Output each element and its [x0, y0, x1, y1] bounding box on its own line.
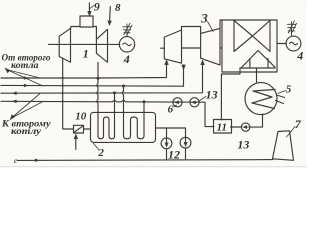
condenser throat house [241, 51, 275, 69]
arrow 9 steam inlet [88, 3, 90, 12]
svg-text:11: 11 [217, 122, 227, 134]
wire reheat line 2 [1, 65, 184, 86]
svg-text:7: 7 [295, 117, 302, 131]
reheater boiler box 2 [91, 112, 156, 142]
LP turbine box [222, 20, 277, 72]
wire house to heater 11 branch [221, 68, 240, 120]
pump 6 [173, 98, 182, 107]
svg-text:10: 10 [75, 111, 87, 123]
svg-text:9: 9 [94, 0, 100, 13]
valve box 10 [74, 125, 84, 133]
node line1 x98 [97, 77, 100, 80]
label leader 9 [90, 6, 93, 9]
label leader 3 [208, 22, 214, 32]
wire box 11 to pump 13 [231, 126, 242, 128]
wire turbine1 right exhaust [97, 62, 99, 78]
pump 13 second [190, 98, 199, 107]
label leader 5 [278, 91, 286, 94]
svg-text:8: 8 [115, 2, 121, 14]
turbine 1 HP section right [96, 29, 107, 62]
svg-text:6: 6 [168, 104, 174, 116]
wire feed line 4 to heater 11 [1, 100, 214, 126]
label leader 6 [174, 105, 177, 107]
wire valve to right section [93, 27, 96, 40]
svg-text:4: 4 [296, 49, 303, 63]
node line3 x114.5 [113, 91, 116, 94]
svg-text:13: 13 [237, 138, 249, 152]
svg-text:1: 1 [83, 47, 89, 61]
wire boiler 2 to pumps 12 [156, 128, 186, 137]
turbine A section of second shaft [164, 30, 181, 63]
arrow into box 10 [75, 138, 77, 150]
label leader 13 pumps [199, 97, 206, 102]
wires pumps 12 to bottom line [167, 148, 186, 159]
wire pump 13 to condenser [250, 114, 263, 127]
svg-text:4: 4 [123, 52, 130, 66]
heater box 11 [214, 120, 232, 134]
label leader 2 [93, 143, 99, 150]
pump 13 right [241, 123, 249, 131]
turbine 1 HP section left [59, 28, 70, 62]
generator 4 left [119, 37, 134, 52]
svg-text:котлу: котлу [11, 126, 42, 136]
svg-text:12: 12 [168, 148, 180, 162]
wire crossover A to 3 [182, 27, 201, 34]
wire shaft LP to generator 4 right [277, 43, 286, 45]
arrow 8 steam inlet [109, 7, 112, 22]
busbar symbol above generator 4 left [126, 24, 128, 37]
coil A in boiler 2 [97, 78, 115, 139]
wire box 10 to reheater 2 [84, 128, 91, 130]
svg-text:13: 13 [206, 87, 218, 101]
boiler text arrows to second boiler [12, 94, 44, 119]
generator 4 right [286, 36, 301, 51]
coil B in boiler 2 [122, 86, 144, 139]
node crossings at x62.7 [62, 77, 64, 79]
pump 12 b [180, 137, 191, 148]
wire shaft stub left of turbine A [161, 47, 165, 49]
wire valve to left section [71, 27, 80, 29]
bottom circulating water line [17, 159, 273, 162]
wire shaft 3 to LP box [220, 47, 222, 49]
wire shaft of turbogenerator 1 [49, 43, 120, 45]
busbar symbol above generator 4 right [291, 22, 293, 37]
pump 12 a [161, 138, 172, 149]
node line4 x144 [143, 100, 146, 103]
svg-text:3: 3 [200, 11, 208, 26]
svg-text:котла: котла [11, 60, 39, 70]
svg-text:5: 5 [286, 84, 292, 96]
turbine 3 [201, 28, 220, 65]
wire reheat line 1 [1, 62, 167, 78]
label leader 7 [287, 127, 296, 138]
flow arrows on lines [24, 76, 29, 80]
node line2 x123.5 [122, 85, 125, 88]
circulating water stubs [276, 95, 285, 104]
wire turbine 1 left exhaust down to box 10 [63, 58, 74, 129]
control valve box of turbine 1 [80, 16, 93, 27]
boiler text arrows from second boiler [7, 70, 44, 87]
LP double flow bowtie [234, 21, 270, 52]
paper streak artifact [0, 166, 307, 168]
condenser 5 [245, 83, 277, 115]
wire reheat line 3 [1, 62, 203, 93]
svg-text:2: 2 [97, 147, 104, 159]
wire shaft turbine A to turbine 3 [182, 47, 201, 49]
wire LP exhaust to condenser [256, 68, 258, 83]
cooling tower 7 [273, 131, 294, 161]
wire connector turbine 3 to LP box [220, 20, 222, 28]
svg-text:с: с [14, 157, 17, 165]
